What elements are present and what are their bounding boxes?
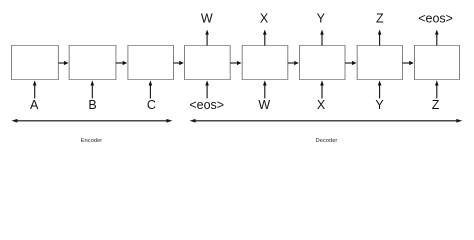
svg-text:Y: Y bbox=[317, 12, 326, 26]
svg-text:W: W bbox=[201, 12, 213, 26]
svg-text:A: A bbox=[30, 98, 39, 112]
svg-text:<eos>: <eos> bbox=[418, 12, 453, 26]
svg-text:X: X bbox=[317, 98, 326, 112]
svg-text:Encoder: Encoder bbox=[81, 138, 103, 144]
svg-text:W: W bbox=[258, 98, 270, 112]
svg-text:Y: Y bbox=[375, 98, 384, 112]
svg-text:Z: Z bbox=[432, 98, 440, 112]
svg-text:<eos>: <eos> bbox=[189, 98, 224, 112]
svg-text:X: X bbox=[260, 12, 269, 26]
svg-text:C: C bbox=[147, 98, 156, 112]
svg-text:Decoder: Decoder bbox=[315, 138, 337, 144]
svg-text:Z: Z bbox=[376, 12, 384, 26]
svg-text:B: B bbox=[88, 98, 96, 112]
